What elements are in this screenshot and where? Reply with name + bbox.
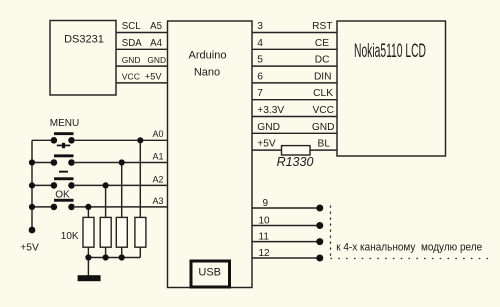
pushbutton SW4 terminals xyxy=(51,204,58,211)
svg-text:GND: GND xyxy=(312,122,335,133)
svg-text:Nano: Nano xyxy=(194,66,220,78)
svg-text:10K: 10K xyxy=(61,231,79,242)
dashed bracket vertical xyxy=(330,206,332,259)
terminal pin9 xyxy=(316,205,323,212)
svg-text:USB: USB xyxy=(198,267,221,279)
wire VCC-+5V left xyxy=(116,82,168,84)
junction R1-A3 xyxy=(85,204,91,210)
svg-text:R1330: R1330 xyxy=(277,155,314,169)
wire A3 xyxy=(75,206,168,208)
svg-text:12: 12 xyxy=(259,248,271,259)
ground xyxy=(78,275,101,281)
wire column R3 to A1 xyxy=(121,163,123,218)
wire pin 9 xyxy=(252,207,317,209)
wire rail to SW4 xyxy=(32,206,51,208)
wire SDA-A4 xyxy=(116,48,168,50)
wire GND-GND left xyxy=(116,65,168,67)
svg-text:CLK: CLK xyxy=(313,88,333,99)
wire +3.3V-VCC xyxy=(252,116,337,118)
wire A2 xyxy=(75,184,168,186)
resistor R4 10K xyxy=(135,217,146,247)
pushbutton SW1 MENU bar xyxy=(54,132,74,135)
svg-text:7: 7 xyxy=(257,88,263,99)
svg-text:DC: DC xyxy=(315,55,330,66)
svg-text:A2: A2 xyxy=(152,174,163,184)
svg-text:MENU: MENU xyxy=(50,118,79,129)
pushbutton SW2 plus bar xyxy=(54,154,74,157)
svg-text:BL: BL xyxy=(318,139,331,150)
svg-text:+5V: +5V xyxy=(257,139,276,150)
label plus xyxy=(57,143,71,148)
junction R2-bus xyxy=(103,254,109,260)
wire R2 bottom xyxy=(105,247,107,258)
resistor R1330 body xyxy=(282,146,311,155)
terminal +5V xyxy=(29,227,36,234)
resistor R3 10K xyxy=(116,217,127,247)
svg-text:CE: CE xyxy=(315,38,329,49)
svg-text:A1: A1 xyxy=(152,151,163,161)
wire column R4 to A0 xyxy=(139,140,141,217)
wire R4 bottom xyxy=(139,247,141,258)
pushbutton SW1 terminals xyxy=(51,137,58,144)
svg-text:3: 3 xyxy=(257,21,263,32)
junction rail-A1 xyxy=(29,159,35,165)
svg-text:GND: GND xyxy=(257,122,280,133)
dashed bracket horizontal xyxy=(331,258,491,260)
svg-text:6: 6 xyxy=(257,71,263,82)
svg-text:DS3231: DS3231 xyxy=(64,34,104,46)
svg-text:A3: A3 xyxy=(152,196,163,206)
svg-text:A5: A5 xyxy=(150,21,162,32)
wire A1 xyxy=(75,162,168,164)
wire R3 bottom xyxy=(121,247,123,258)
svg-text:OK: OK xyxy=(55,189,70,200)
wire ground bus xyxy=(88,257,140,259)
USB box xyxy=(191,261,230,287)
svg-text:A0: A0 xyxy=(152,129,163,139)
svg-text:Nokia5110 LCD: Nokia5110 LCD xyxy=(354,40,426,62)
svg-text:10: 10 xyxy=(259,215,271,226)
svg-text:VCC: VCC xyxy=(122,72,140,82)
pushbutton SW2 terminals xyxy=(51,159,58,166)
svg-text:DIN: DIN xyxy=(314,71,332,82)
wire 4-CE xyxy=(252,48,337,50)
wire column R2 to A2 xyxy=(105,185,107,217)
wire A0 xyxy=(75,139,168,141)
svg-text:Arduino: Arduino xyxy=(189,49,227,61)
terminal pin11 xyxy=(316,238,323,245)
wire 7-CLK xyxy=(252,99,337,101)
pushbutton SW3 terminals xyxy=(51,182,58,189)
module DS3231 box xyxy=(50,21,116,96)
svg-text:11: 11 xyxy=(259,231,270,242)
svg-text:SCL: SCL xyxy=(122,21,141,32)
Arduino Nano box xyxy=(168,21,253,288)
terminal pin10 xyxy=(316,222,323,229)
wire R1 bottom xyxy=(87,247,89,276)
wire rail to SW3 xyxy=(32,184,51,186)
svg-text:SDA: SDA xyxy=(122,38,142,49)
junction rail-A2 xyxy=(29,182,35,188)
junction rail-A3 xyxy=(29,204,35,210)
svg-text:к 4-х канальному модулю реле: к 4-х канальному модулю реле xyxy=(336,242,482,254)
junction R4-A0 xyxy=(137,137,143,143)
svg-text:RST: RST xyxy=(312,21,332,32)
wire SCL-A5 xyxy=(116,32,168,34)
pushbutton SW4 OK bar xyxy=(54,199,74,202)
svg-text:+5V: +5V xyxy=(145,72,162,82)
svg-text:GND: GND xyxy=(147,55,166,65)
wire pin 10 xyxy=(252,225,317,227)
svg-text:9: 9 xyxy=(263,198,269,209)
wire pin 11 xyxy=(252,241,317,243)
wire column R1 to A3 xyxy=(87,207,89,218)
wire pin 12 xyxy=(252,257,317,259)
junction R2-A2 xyxy=(103,182,109,188)
terminal pin12 xyxy=(316,255,323,262)
wire 6-DIN xyxy=(252,82,337,84)
wire GND-GND right xyxy=(252,132,337,134)
resistor R2 10K xyxy=(100,217,111,247)
wire rail to SW2 xyxy=(32,162,51,164)
resistor R1 10K xyxy=(83,217,94,247)
svg-text:5: 5 xyxy=(257,55,263,66)
svg-text:+5V: +5V xyxy=(20,242,39,253)
svg-text:VCC: VCC xyxy=(312,105,334,116)
svg-text:4: 4 xyxy=(257,38,263,49)
junction R1-bus xyxy=(85,254,91,260)
wire +5V rail xyxy=(31,140,33,230)
svg-text:GND: GND xyxy=(122,55,141,65)
wire +5V-BL xyxy=(252,149,337,151)
svg-text:A4: A4 xyxy=(150,38,162,49)
junction R3-A1 xyxy=(119,159,125,165)
Nokia5110 LCD box xyxy=(337,21,446,156)
label minus xyxy=(59,171,68,173)
wire 5-DC xyxy=(252,65,337,67)
wire 3-RST xyxy=(252,32,337,34)
junction R3-bus xyxy=(119,254,125,260)
wire rail to SW1 xyxy=(32,139,51,141)
svg-text:+3.3V: +3.3V xyxy=(257,105,284,116)
pushbutton SW3 minus bar xyxy=(54,177,74,180)
